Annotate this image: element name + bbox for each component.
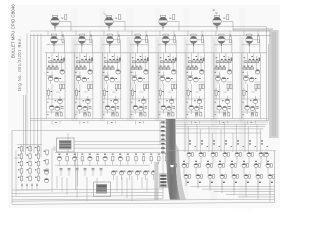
transistor QC2 — [119, 171, 125, 180]
capacitor C9 — [172, 107, 175, 109]
resistor R33 R34 pair — [143, 84, 148, 90]
resistor R17 — [76, 88, 81, 99]
capacitor C3 — [89, 107, 92, 109]
top rail wire upper — [55, 26, 266, 28]
wire module 5 feed — [158, 44, 177, 46]
transistor Q39 — [222, 77, 229, 82]
capacitor C6 — [112, 113, 115, 116]
resistor group R37 R38 R39 — [160, 56, 177, 63]
top rail wire lower — [30, 35, 271, 37]
transistor Q5 — [50, 105, 55, 114]
transistor QE9 — [266, 161, 272, 175]
transistor QE1 — [170, 161, 176, 175]
resistor RN2 — [18, 152, 23, 160]
transistor QC3 — [127, 171, 133, 180]
svg-text:BULLET MPU CPID CB046: BULLET MPU CPID CB046 — [11, 4, 16, 58]
transistor QD2 — [199, 153, 205, 164]
transistor QF4 — [220, 175, 226, 190]
wire module 2 lower links — [74, 99, 93, 115]
transistor Q6 — [55, 106, 59, 110]
middle band bottom rail wire — [30, 119, 268, 121]
transistor QF7 — [256, 175, 262, 194]
transistor QE8 — [254, 161, 260, 175]
resistor group R1 R2 R3 — [48, 56, 65, 63]
resistor group R55 R56 R57 — [215, 56, 232, 63]
transistor TR12 (second row) — [246, 34, 260, 53]
resistor RN1 — [18, 145, 23, 153]
transistor TR11 (second row) — [218, 34, 232, 53]
transistor Q20 — [132, 76, 137, 84]
wire bottom-left stack links — [14, 145, 52, 197]
top-right label marks — [213, 10, 218, 14]
resistor R27 — [116, 113, 118, 116]
MPU pin 1 — [161, 121, 166, 123]
resistor R26 — [103, 88, 108, 99]
svg-text:OSC: OSC — [53, 146, 56, 151]
wire module 6 feed — [186, 44, 205, 46]
resistor group R31 R32 R33b — [130, 66, 143, 73]
wire module 7 feed — [214, 44, 233, 46]
transistor QD6 — [247, 153, 253, 164]
transistor Q46 — [250, 99, 258, 104]
resistor RN17 — [44, 160, 49, 166]
transistor TR9 (second row) — [162, 34, 176, 53]
transistor Q32 — [188, 76, 193, 84]
wire grid feed verticals — [185, 122, 260, 152]
transistor Q48 — [250, 106, 254, 110]
MPU pin 2 — [161, 126, 166, 128]
connector J1 — [160, 174, 168, 188]
title text BULLET MPU CPID CB046 — [11, 4, 16, 58]
transistor Q21 — [138, 77, 145, 82]
resistor group R46 R47 R48 — [188, 56, 205, 63]
transistor Q14 — [104, 76, 109, 84]
transistor QA2 — [44, 178, 48, 182]
wire module 3 left rail — [101, 53, 103, 119]
wire module 7 under-rail stubs — [219, 121, 227, 125]
resistor R53 — [187, 88, 192, 99]
transistor Q40 — [222, 99, 230, 104]
wire module 4 right rail — [148, 53, 150, 119]
transistor Q22 — [138, 99, 146, 104]
transistor Q42 — [222, 106, 226, 110]
transistor QB1 — [57, 154, 61, 166]
capacitor CB3 — [76, 168, 79, 176]
resistor group R40 R41 R42b — [158, 66, 171, 73]
resistor R54 — [200, 113, 202, 116]
wire MPU output bus — [166, 122, 276, 151]
transistor Q17 — [105, 105, 110, 114]
transistor Q43 — [255, 70, 259, 74]
wire module 6 left rail — [185, 53, 187, 119]
wire module 8 right rail — [259, 53, 261, 119]
resistor RN9 — [26, 167, 31, 175]
wire module 1 left rail — [46, 53, 48, 119]
transistor Q35 — [189, 105, 194, 114]
MPU pin 6 — [161, 143, 166, 145]
wire crystal to MPU — [74, 121, 166, 199]
transistor QF6 — [244, 175, 250, 193]
resistor RB1 — [66, 154, 68, 165]
wire module 3 right rail — [120, 53, 122, 119]
transistor QC4 — [135, 171, 141, 180]
wire module 7 inner verticals — [214, 53, 233, 112]
resistor RN10 — [26, 174, 31, 182]
wire module 7 right rail — [231, 53, 233, 119]
transistor Q27 — [166, 77, 173, 82]
top rail wire middle — [30, 30, 271, 32]
resistor RN16 — [44, 150, 49, 156]
resistor group R64 R65 R66 — [243, 56, 260, 63]
transistor TR2 (top row) — [105, 15, 125, 31]
resistor RN7 — [26, 152, 31, 160]
transistor Q10 — [83, 99, 91, 104]
wire module 4 lower links — [130, 99, 149, 115]
resistor R63 — [228, 113, 230, 116]
wire module 1 lower links — [47, 99, 66, 115]
resistor R18 — [88, 113, 90, 116]
resistor R69 R70 pair — [255, 84, 260, 90]
transistor QE5 — [218, 161, 224, 175]
transistor QA1 — [44, 170, 48, 174]
resistor group R10 R11 R12 — [76, 56, 93, 63]
title text Drg No — [17, 36, 22, 91]
resistor RN4 — [18, 167, 23, 175]
grid speck mark 8 — [271, 182, 273, 183]
capacitor CB1 — [60, 168, 63, 176]
wire module 1 inner verticals — [47, 53, 66, 112]
wire bottom middle rails — [55, 153, 160, 166]
transistor QB2 — [73, 154, 77, 166]
top rail drop ticks — [48, 31, 258, 36]
transistor QD7 — [259, 153, 265, 164]
resistor RN15 — [35, 174, 40, 182]
transistor Q8 — [76, 76, 81, 84]
resistor R44 — [159, 88, 164, 99]
transistor Q31 — [200, 70, 204, 74]
resistor RN12 — [35, 152, 40, 160]
resistor R62 — [215, 88, 220, 99]
wire module 3 lower links — [102, 99, 121, 115]
IC U2 — [94, 182, 111, 197]
transistor Q4 — [55, 99, 63, 104]
wire module 5 right rail — [176, 53, 178, 119]
transistor Q1 — [60, 70, 64, 74]
wire module 8 left rail — [241, 53, 243, 119]
transistor TR3 (top row) — [159, 15, 179, 31]
transistor Q25 — [172, 70, 176, 74]
wire module 5 left rail — [157, 53, 159, 119]
capacitor C11 — [200, 107, 203, 109]
transistor Q18 — [111, 106, 115, 110]
transistor QC1 — [111, 171, 117, 180]
transistor TR8 (second row) — [134, 34, 148, 53]
wire module 3 inner verticals — [102, 53, 121, 112]
wire module 2 left rail — [73, 53, 75, 119]
resistor R35 — [131, 88, 136, 99]
grid speck mark 3 — [211, 182, 213, 183]
resistor RB2 — [81, 154, 83, 165]
transistor Q47 — [245, 105, 250, 114]
transistor Q16 — [110, 99, 118, 104]
resistor RN18 — [44, 169, 49, 175]
capacitor C2 — [56, 113, 59, 116]
resistor RN11 — [35, 145, 40, 153]
resistor R8 — [48, 88, 53, 99]
page right edge shadow — [233, 28, 279, 138]
right border wire — [267, 27, 269, 122]
wire module 4 under-rail stubs — [136, 121, 144, 125]
transistor TR6 (second row) — [78, 34, 92, 53]
resistor RB3 — [96, 154, 98, 165]
transistor QD8 — [265, 153, 269, 164]
MPU pin 5 — [161, 139, 166, 141]
transistor Q9 — [82, 77, 89, 82]
wire module 4 inner verticals — [130, 53, 149, 112]
wire bottom-left risers — [57, 152, 147, 201]
transistor Q44 — [244, 76, 249, 84]
transistor QF8 — [268, 175, 274, 195]
wire grid to bus verticals — [186, 180, 270, 202]
wire module 1 right rail — [64, 53, 66, 119]
resistor RB9 — [158, 154, 160, 164]
wire module 5 under-rail stubs — [164, 121, 172, 125]
capacitor C12 — [195, 113, 198, 116]
grid speck mark 4 — [223, 182, 225, 183]
resistor RB7 — [142, 154, 144, 164]
wire module 3 feed — [102, 44, 121, 46]
resistor RN6 — [26, 145, 31, 153]
resistor R60 R61 pair — [227, 84, 232, 90]
transistor QF3 — [208, 175, 214, 189]
wire module 8 under-rail stubs — [247, 121, 255, 125]
transistor Q19 — [144, 70, 148, 74]
wire module 2 under-rail stubs — [80, 121, 88, 125]
resistor RN3 — [18, 160, 23, 168]
grid speck mark 6 — [247, 182, 249, 183]
resistor group R28 R29 R30 — [132, 56, 149, 63]
resistor RN5 — [18, 174, 23, 182]
MPU pin 3 — [161, 130, 166, 132]
transistor Q15 — [110, 77, 117, 82]
grid speck mark 1 — [187, 182, 189, 183]
capacitor C16 — [251, 113, 254, 116]
transistor QB3 — [88, 154, 92, 166]
transistor TR10 (second row) — [190, 34, 204, 53]
MPU pin 8 — [161, 152, 166, 154]
transistor Q23 — [133, 105, 138, 114]
transistor QD5 — [235, 153, 241, 164]
grid speck mark 7 — [259, 182, 261, 183]
resistor R71 — [243, 88, 248, 99]
resistor R36 — [144, 113, 146, 116]
transistor TR5 (second row) — [51, 34, 65, 53]
transistor QC6 — [151, 171, 157, 180]
wire module 2 right rail — [92, 53, 94, 119]
transistor TR1 (top row) — [51, 15, 71, 31]
wire module 3 under-rail stubs — [108, 121, 116, 125]
transistor Q3 — [54, 77, 61, 82]
transistor QC5 — [143, 171, 149, 180]
faint footer text — [236, 207, 253, 211]
transistor Q45 — [249, 77, 256, 82]
capacitor C13 — [228, 107, 231, 109]
grid speck mark 5 — [235, 182, 237, 183]
transistor Q26 — [160, 76, 165, 84]
wire bottom bus right group — [190, 151, 275, 203]
capacitor CB4 — [84, 168, 87, 176]
resistor R45 — [172, 113, 174, 116]
transistor QF1 — [184, 175, 190, 187]
resistor RB5 — [127, 154, 129, 165]
transistor Q29 — [161, 105, 166, 114]
svg-text:. .. . ...: . .. . ... — [236, 207, 253, 211]
wire module 2 inner verticals — [74, 53, 93, 112]
wire module 8 feed — [242, 44, 260, 46]
capacitor CB6 — [100, 168, 103, 176]
wire module 6 lower links — [186, 99, 205, 115]
transistor Q41 — [217, 105, 222, 114]
scan fold shading stripes — [71, 8, 244, 200]
capacitor CB5 — [92, 168, 95, 176]
transistor QF2 — [196, 175, 202, 188]
MPU U1 (dark bar) — [166, 119, 186, 200]
wire module 2 feed — [74, 44, 93, 46]
capacitor C5 — [117, 107, 120, 109]
capacitor C1 — [61, 107, 64, 109]
capacitor CB2 — [68, 168, 71, 176]
resistor R24 R25 pair — [115, 84, 120, 90]
transistor QE6 — [230, 161, 236, 175]
resistor R51 R52 pair — [199, 84, 204, 90]
capacitor C14 — [223, 113, 226, 116]
wire module 1 feed — [47, 44, 66, 46]
transistor QE2 — [182, 161, 188, 175]
resistor RN8 — [26, 160, 31, 168]
capacitor C4 — [84, 113, 87, 116]
transistor QE4 — [206, 161, 212, 175]
transistor Q28 — [166, 99, 174, 104]
wire module 5 inner verticals — [158, 53, 177, 112]
capacitor C7 — [145, 107, 148, 109]
transistor QE7 — [242, 161, 248, 175]
wire module 6 inner verticals — [186, 53, 205, 112]
wire module 4 left rail — [129, 53, 131, 119]
transistor Q24 — [139, 106, 143, 110]
capacitor C8 — [140, 113, 143, 116]
transistor Q2 — [48, 76, 53, 84]
MPU pin 4 — [161, 134, 166, 136]
wire module 1 under-rail stubs — [52, 121, 60, 125]
capacitor C10 — [167, 113, 170, 116]
resistor R15 R16 pair — [88, 84, 93, 90]
resistor group R4 R5 R6b — [47, 66, 60, 73]
wire module 4 feed — [130, 44, 149, 46]
middle band top rail wire — [45, 52, 267, 54]
transistor TR7 (second row) — [106, 34, 120, 53]
grid speck mark 2 — [199, 182, 201, 183]
wire module 7 lower links — [214, 99, 233, 115]
transistor Q7 — [88, 70, 92, 74]
wire module 6 right rail — [204, 53, 206, 119]
resistor group R58 R59 R60b — [214, 66, 227, 73]
resistor RN14 — [35, 167, 40, 175]
left vertical bus wires — [24, 34, 42, 158]
capacitor C15 — [256, 107, 259, 109]
crystal X1 — [53, 138, 74, 152]
wire module 5 lower links — [158, 99, 177, 115]
transistor Q13 — [116, 70, 120, 74]
transistor QD3 — [211, 153, 217, 164]
transistor QF5 — [232, 175, 238, 191]
transistor Q30 — [167, 106, 171, 110]
resistor RB8 — [150, 154, 152, 164]
transistor Q11 — [77, 105, 82, 114]
wire bottom bus left group — [12, 189, 275, 204]
transistor Q37 — [227, 70, 231, 74]
scratch mark — [104, 13, 110, 20]
transistor QD4 — [223, 153, 229, 164]
resistor R9 — [60, 113, 62, 116]
transistor Q34 — [194, 99, 202, 104]
resistor R6 R7 pair — [60, 84, 65, 90]
transistor Q38 — [216, 76, 221, 84]
resistor RN13 — [35, 160, 40, 168]
transistor QE3 — [194, 161, 200, 175]
transistor Q36 — [195, 106, 199, 110]
transistor Q33 — [194, 77, 201, 82]
wire module 8 lower links — [242, 99, 260, 115]
capacitor stack drops — [21, 183, 38, 190]
resistor group R13 R14 R15b — [74, 66, 87, 73]
wire module 8 inner verticals — [242, 53, 260, 112]
bottom section frame — [12, 131, 163, 204]
resistor group R67 R68 R69b — [242, 66, 255, 73]
transistor QB5 — [118, 154, 122, 166]
wire module 7 left rail — [213, 53, 215, 119]
resistor group R49 R50 R51b — [186, 66, 199, 73]
MPU pin 7 — [161, 147, 166, 149]
resistor R72 — [256, 113, 258, 116]
svg-text:Drg No. 001/3/201 Rev..: Drg No. 001/3/201 Rev.. — [17, 36, 22, 91]
fold shadow left of connector — [154, 162, 158, 200]
transistor TR4 (top row) — [213, 15, 233, 31]
wire module 6 under-rail stubs — [192, 121, 200, 125]
transistor QB4 — [103, 154, 107, 166]
resistor RB10 — [165, 154, 167, 164]
grid label marks — [189, 140, 268, 147]
transistor QD1 — [187, 153, 193, 164]
resistor RB4 — [112, 154, 114, 165]
transistor Q12 — [83, 106, 87, 110]
resistor group R22 R23 R24b — [102, 66, 115, 73]
resistor R42 R43 pair — [171, 84, 176, 90]
resistor RB6 — [135, 154, 137, 164]
resistor group R19 R20 R21 — [104, 56, 121, 63]
